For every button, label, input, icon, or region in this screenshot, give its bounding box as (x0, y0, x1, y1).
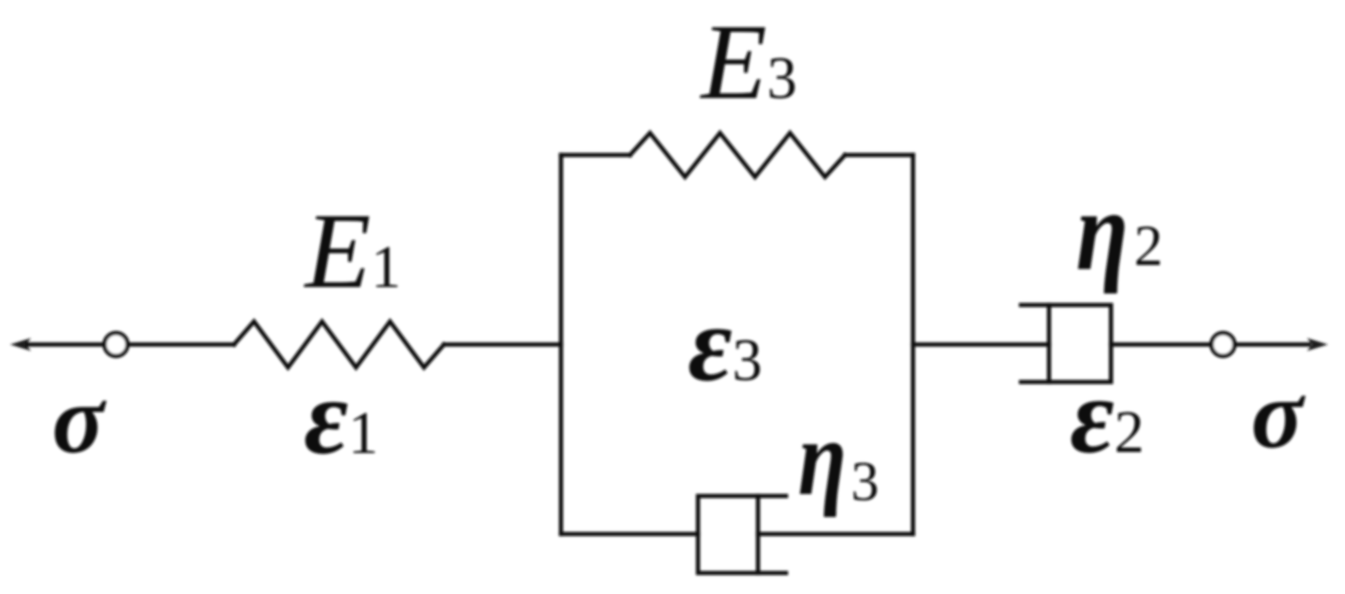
wire top-right of box (845, 153, 913, 157)
node right terminal circle (1212, 333, 1235, 356)
svg-text:E1: E1 (303, 192, 401, 311)
dashpot eta3 cylinder (698, 496, 786, 573)
wire left terminal segment (28, 342, 103, 346)
node left terminal circle (105, 333, 128, 356)
svg-text:η: η (798, 399, 847, 518)
dashpot eta3 piston (756, 496, 760, 573)
wire box right rail (911, 155, 915, 534)
resistor(spring) E1 (234, 322, 444, 368)
svg-text:2: 2 (1134, 213, 1163, 278)
wire circle to spring E1 (128, 342, 234, 346)
svg-text:ε1: ε1 (304, 358, 378, 477)
wire box left rail (559, 155, 563, 534)
dashpot eta2 cylinder (1021, 305, 1111, 382)
wire bottom-right of box (758, 532, 913, 536)
svg-text:ε2: ε2 (1070, 357, 1144, 476)
left arrowhead (10, 338, 31, 351)
svg-text:3: 3 (851, 451, 879, 513)
svg-text:E3: E3 (699, 3, 797, 122)
wire dashpot eta2 to right terminal (1111, 342, 1210, 346)
wire bottom-left of box (561, 532, 698, 536)
dashpot eta2 piston (1047, 305, 1051, 382)
svg-text:ε3: ε3 (688, 285, 762, 404)
svg-text:σ: σ (1251, 361, 1306, 468)
resistor(spring) E3 (630, 133, 845, 177)
wire box right rail to dashpot eta2 (913, 342, 1049, 346)
wire spring E1 to box left rail (444, 342, 561, 346)
wire top-left of box (561, 153, 630, 157)
right arrowhead (1307, 338, 1328, 351)
svg-text:η: η (1076, 167, 1129, 294)
wire right terminal segment (1236, 342, 1309, 346)
svg-text:σ: σ (52, 366, 107, 473)
